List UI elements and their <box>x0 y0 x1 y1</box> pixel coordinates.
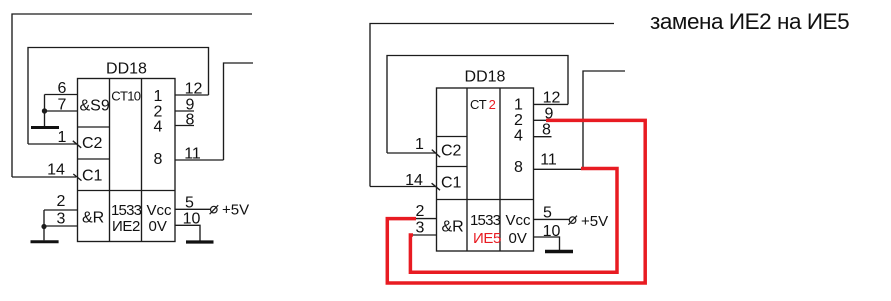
junction dot left pin 7 <box>42 108 47 113</box>
+5V terminal circle right <box>568 216 577 225</box>
svg-text:14: 14 <box>47 162 65 179</box>
wire: left pin 5 stub to +5V <box>175 208 211 210</box>
svg-text:замена ИЕ2 на ИЕ5: замена ИЕ2 на ИЕ5 <box>650 9 849 34</box>
IC U-left lower section divider <box>78 190 176 192</box>
svg-text:Vcc: Vcc <box>147 202 173 219</box>
svg-text:10: 10 <box>183 211 201 228</box>
red replacement wire: pin9 to pin2 (outer) <box>387 120 645 283</box>
svg-text:10: 10 <box>543 223 561 240</box>
svg-text:1: 1 <box>415 136 424 153</box>
wire: right pin 2 stub <box>416 218 437 220</box>
svg-text:4: 4 <box>514 128 523 145</box>
svg-text:1533: 1533 <box>111 202 142 219</box>
wire: left pins 2-3 to ground <box>43 210 45 240</box>
svg-text:1: 1 <box>154 88 163 105</box>
IC U-right empty cell divider <box>437 136 468 138</box>
IC U-left &S9 cell divider <box>78 126 110 128</box>
svg-text:14: 14 <box>405 172 423 189</box>
wire: left pin12 to C2 (pin1) net <box>28 48 209 145</box>
wire: left pin 3 stub <box>44 225 78 227</box>
svg-text:0V: 0V <box>149 218 167 235</box>
svg-text:C2: C2 <box>441 143 462 160</box>
IC U-right lower section divider <box>437 199 534 201</box>
IC U-left column divider 1 <box>109 79 111 242</box>
wire: right circuit top dangling net <box>370 24 614 187</box>
svg-text:3: 3 <box>416 220 425 237</box>
svg-text:&R: &R <box>442 219 464 236</box>
junction dot left pin 3 <box>41 224 46 229</box>
svg-text:Vcc: Vcc <box>506 212 532 229</box>
wire: right pin 11 stub <box>534 168 584 170</box>
wire: right pin 1 stub <box>387 152 435 154</box>
dynamic-input tick C2 right <box>432 150 440 158</box>
IC U-right DD18 box <box>437 88 534 251</box>
svg-text:8: 8 <box>154 151 163 168</box>
wire: right pin 3 stub <box>412 234 437 236</box>
svg-text:8: 8 <box>186 112 195 129</box>
svg-text:ИЕ2: ИЕ2 <box>112 218 140 235</box>
IC U-right column divider 1 <box>466 88 468 251</box>
svg-text:&R: &R <box>82 210 104 227</box>
+5V terminal circle left <box>210 205 219 214</box>
svg-text:C2: C2 <box>82 135 103 152</box>
svg-text:CT10: CT10 <box>111 89 140 104</box>
wire: left pin 14 stub <box>12 176 76 178</box>
svg-text:+5V: +5V <box>222 202 249 219</box>
svg-text:11: 11 <box>540 152 557 169</box>
IC U-left column divider 2 <box>141 79 143 242</box>
wire: left pin 2 stub <box>44 209 78 211</box>
dynamic-input tick C1 left <box>73 174 81 181</box>
wire: left pins 6-7 to ground <box>44 95 46 127</box>
svg-text:6: 6 <box>58 80 67 97</box>
wire: left circuit top dangling net <box>12 14 252 177</box>
wire: left pin 6 stub <box>45 94 78 96</box>
svg-text:4: 4 <box>154 119 163 136</box>
wire: right pin 14 stub <box>370 186 435 188</box>
wire: left pin 10 stub <box>175 225 200 240</box>
svg-text:11: 11 <box>184 146 201 163</box>
svg-text:DD18: DD18 <box>106 61 147 78</box>
svg-text:7: 7 <box>58 97 67 114</box>
wire: right pin 5 stub to +5V <box>534 218 570 220</box>
svg-text:8: 8 <box>514 159 523 176</box>
svg-text:0V: 0V <box>509 230 527 247</box>
svg-text:CT 2: CT 2 <box>470 97 496 112</box>
wire: left pin 7 stub <box>45 110 78 112</box>
svg-text:1: 1 <box>514 97 523 114</box>
wire: left pin 9 stub <box>175 110 194 112</box>
dynamic-input tick C2 left <box>73 141 81 148</box>
wire: left pin 11 stub <box>175 159 224 161</box>
ground: right pin 10 <box>545 250 573 253</box>
wire: left pin 12 stub <box>175 94 209 96</box>
wire: right pin11 dangling net <box>583 71 625 169</box>
svg-text:8: 8 <box>542 122 551 139</box>
ground: left pin 10 <box>186 240 214 243</box>
IC U-left C2 cell divider <box>78 158 110 160</box>
ground: left pins 2-3 <box>31 240 59 243</box>
svg-text:1: 1 <box>58 129 67 146</box>
IC U-right column divider 2 <box>499 88 501 251</box>
red replacement wire: pin11 to pin3 (inner) <box>410 169 617 273</box>
svg-text:C1: C1 <box>441 175 462 192</box>
dynamic-input tick C1 right <box>432 183 440 190</box>
IC U-right C2 cell divider <box>437 166 468 168</box>
svg-text:5: 5 <box>185 195 194 212</box>
svg-text:1533: 1533 <box>470 212 501 229</box>
wire: right pin 9 stub <box>534 119 546 121</box>
svg-text:12: 12 <box>185 81 203 98</box>
svg-text:DD18: DD18 <box>465 69 506 86</box>
svg-text:&S9: &S9 <box>80 98 110 115</box>
svg-text:+5V: +5V <box>581 213 608 230</box>
wire: right pin12 to C2 (pin1) net <box>387 56 568 154</box>
svg-text:3: 3 <box>57 211 66 228</box>
svg-text:9: 9 <box>545 106 554 123</box>
IC U-left DD18 box <box>78 79 176 242</box>
wire: left pin 8 stub <box>175 125 194 127</box>
wire: right pin 10 stub <box>534 237 560 250</box>
wire: right pin 12 stub <box>534 103 569 105</box>
svg-text:2: 2 <box>514 112 523 129</box>
wire: right pin 8 stub <box>534 136 552 138</box>
wire: left pin 1 stub <box>28 143 76 145</box>
ground: left pins 6-7 <box>31 126 59 129</box>
svg-text:ИЕ5: ИЕ5 <box>473 230 501 247</box>
svg-text:5: 5 <box>543 205 552 222</box>
svg-text:C1: C1 <box>82 168 103 185</box>
svg-text:12: 12 <box>543 90 561 107</box>
wire: left pin11 dangling net <box>224 63 254 160</box>
svg-text:2: 2 <box>416 203 425 220</box>
svg-text:2: 2 <box>57 193 66 210</box>
